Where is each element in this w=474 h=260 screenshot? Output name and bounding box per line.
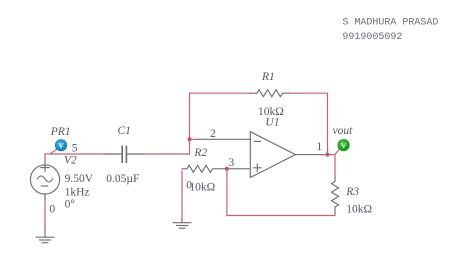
svg-text:vout: vout (333, 125, 354, 137)
svg-text:5: 5 (72, 142, 78, 154)
svg-text:10kΩ: 10kΩ (346, 203, 372, 215)
svg-text:2: 2 (210, 128, 216, 140)
svg-text:0.05µF: 0.05µF (106, 173, 139, 185)
svg-text:0°: 0° (65, 199, 76, 211)
svg-text:R1: R1 (261, 71, 275, 83)
svg-text:9.50V: 9.50V (65, 173, 94, 185)
svg-text:S MADHURA PRASAD: S MADHURA PRASAD (342, 17, 438, 28)
svg-text:R2: R2 (193, 147, 207, 159)
svg-text:V2: V2 (64, 155, 77, 167)
svg-text:0: 0 (49, 204, 55, 216)
svg-text:1: 1 (317, 141, 323, 153)
svg-text:10kΩ: 10kΩ (189, 182, 215, 194)
svg-text:1kHz: 1kHz (65, 187, 90, 199)
svg-text:V: V (341, 141, 347, 150)
svg-text:3: 3 (229, 157, 235, 169)
svg-text:V: V (58, 141, 64, 150)
svg-text:R3: R3 (345, 186, 359, 198)
svg-text:C1: C1 (118, 125, 131, 137)
svg-text:PR1: PR1 (50, 126, 71, 138)
svg-text:U1: U1 (265, 116, 279, 128)
svg-text:9919005092: 9919005092 (342, 32, 402, 43)
